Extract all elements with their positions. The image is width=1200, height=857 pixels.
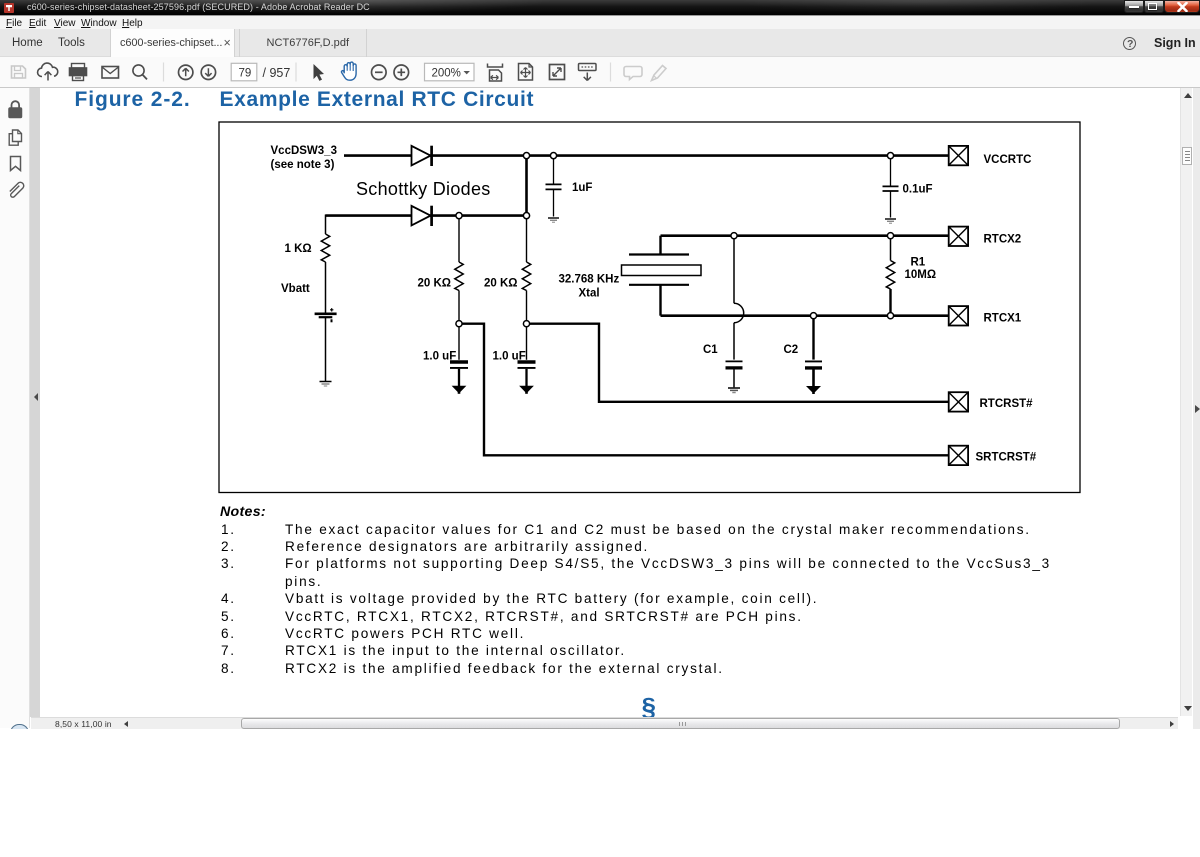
resistor 20KOhm second: [526, 219, 528, 262]
toolbar icons placeholder: [0, 57, 1200, 88]
read mode icon: [579, 64, 597, 81]
share cloud icon: [38, 63, 58, 76]
resistor 20KOhm first: [458, 219, 460, 262]
svg-text:1.0 uF: 1.0 uF: [493, 351, 526, 363]
page thumbnails icon: [9, 130, 21, 145]
select cursor icon: [314, 64, 325, 81]
pin RTCRST#: [949, 392, 968, 411]
svg-text:32.768 KHz: 32.768 KHz: [559, 274, 620, 286]
capacitor 1.0uF first: [458, 327, 460, 360]
white page: [40, 88, 1180, 717]
page number box: [231, 63, 257, 81]
ground triangle (C2): [807, 387, 820, 393]
svg-text:C1: C1: [703, 344, 718, 356]
separator: [295, 63, 297, 82]
wire battery to ground: [325, 318, 327, 381]
junction node W3/C1: [731, 233, 737, 239]
comment bubble icon (disabled): [624, 67, 642, 80]
figure title: [75, 88, 975, 112]
scrollbar thumb: [1182, 147, 1192, 165]
zoom in icon: [394, 65, 409, 80]
svg-text:79: 79: [239, 67, 252, 79]
search icon: [133, 65, 144, 76]
wire W2 second schottky rail: [326, 214, 527, 217]
tab bar: [0, 29, 1200, 57]
schematic SVG goes here: [210, 115, 1090, 500]
scrollbar down arrow: [1184, 706, 1192, 711]
svg-text:Schottky Diodes: Schottky Diodes: [356, 179, 491, 199]
wire W3 RTCX2 rail: [661, 234, 949, 237]
svg-text:/ 957: / 957: [263, 66, 291, 80]
separator: [610, 63, 612, 82]
junction node W1/vertical link: [523, 153, 529, 159]
svg-text:RTCRST#: RTCRST#: [980, 398, 1034, 410]
wire to RTCRST#: [527, 324, 949, 402]
floating page button (clipped at window bottom): [10, 724, 29, 734]
lock icon (secured): [9, 101, 22, 117]
junction node W2/20K first: [456, 213, 462, 219]
wire vertical link W1-W2: [525, 156, 528, 216]
junction node W1/1uF: [550, 153, 556, 159]
ground (1uF): [548, 218, 559, 222]
hscroll right arrow: [1170, 721, 1174, 727]
wire resistor to battery: [325, 262, 327, 313]
ground (0.1uF): [885, 219, 896, 223]
capacitor 0.1uF: [890, 159, 892, 186]
svg-text:Xtal: Xtal: [579, 288, 600, 300]
svg-text:1 KΩ: 1 KΩ: [285, 243, 312, 255]
junction node W4/R1: [887, 313, 893, 319]
save icon (disabled): [12, 66, 26, 78]
svg-text:Vbatt: Vbatt: [281, 283, 310, 295]
resistor R1 10MOhm: [890, 239, 892, 261]
wire drop to 1K resistor: [325, 215, 327, 235]
capacitor 1.0uF second: [526, 327, 528, 360]
notes: [220, 504, 1140, 520]
wire W4 RTCX1 rail: [661, 314, 949, 317]
zoom out icon: [372, 65, 387, 80]
pin RTCX1: [949, 306, 968, 325]
capacitor C1 branch with hop: [733, 239, 735, 303]
right panel collapse arrow: [1195, 405, 1200, 413]
svg-text:10MΩ: 10MΩ: [905, 269, 937, 281]
junction node 20K first/1.0uF: [456, 321, 462, 327]
status bar: [31, 717, 1178, 729]
capacitor C2 branch: [812, 319, 814, 360]
left sidebar: [0, 88, 30, 728]
svg-text:20 KΩ: 20 KΩ: [484, 278, 518, 290]
ground triangle (1.0uF second): [520, 386, 532, 392]
email envelope icon: [102, 67, 119, 79]
menu bar: [0, 15, 1200, 29]
wire W1 VccDSW3_3 to VCCRTC: [344, 154, 949, 157]
svg-text:R1: R1: [911, 257, 926, 269]
scrollbar up arrow: [1184, 93, 1192, 98]
diode D2 schottky: [412, 206, 431, 226]
svg-text:C2: C2: [784, 344, 799, 356]
ground (C1): [728, 388, 740, 393]
crystal Y1 32.768KHz: [659, 236, 661, 255]
junction node W4/C2: [810, 313, 816, 319]
zoom level box: [425, 63, 475, 81]
svg-text:RTCX2: RTCX2: [984, 234, 1022, 246]
svg-text:200%: 200%: [432, 67, 461, 79]
resistor 1KOhm zigzag: [321, 234, 329, 262]
pin VCCRTC: [949, 146, 968, 165]
full screen icon: [550, 65, 565, 80]
ground triangle (1.0uF first): [453, 386, 465, 392]
fit page icon: [519, 64, 533, 81]
junction node W2/20K second: [523, 213, 529, 219]
junction node W1/0.1uF: [887, 153, 893, 159]
junction node W3/R1: [887, 233, 893, 239]
svg-text:1.0 uF: 1.0 uF: [423, 351, 456, 363]
bookmarks icon: [11, 157, 21, 171]
svg-text:1uF: 1uF: [572, 182, 592, 194]
fit width icon: [488, 64, 503, 82]
print icon: [70, 64, 87, 81]
next page icon: [201, 65, 215, 79]
attachments paperclip icon: [10, 182, 24, 197]
svg-text:RTCX1: RTCX1: [984, 313, 1022, 325]
separator: [163, 63, 165, 82]
junction node 20K second/1.0uF: [523, 321, 529, 327]
highlighter pencil icon (disabled): [652, 66, 667, 81]
diode D1 schottky: [412, 146, 431, 166]
wire to SRTCRST#: [459, 324, 949, 456]
window title bar: [0, 0, 1200, 15]
hand tool icon: [341, 62, 356, 80]
previous page icon: [179, 65, 193, 79]
section mark (next page heading, clipped): [642, 692, 656, 723]
ground (battery): [320, 382, 332, 387]
left panel collapse arrow: [34, 393, 38, 401]
svg-text:VCCRTC: VCCRTC: [984, 154, 1032, 166]
hscroll left arrow: [124, 721, 128, 727]
capacitor 1uF: [553, 158, 555, 184]
svg-text:VccDSW3_3: VccDSW3_3: [271, 145, 337, 157]
pin SRTCRST#: [949, 446, 968, 465]
svg-text:0.1uF: 0.1uF: [903, 184, 933, 196]
battery Vbatt plates: [315, 312, 337, 315]
svg-text:20 KΩ: 20 KΩ: [418, 278, 452, 290]
pin RTCX2: [949, 227, 968, 246]
svg-text:(see note 3): (see note 3): [271, 159, 335, 171]
schematic frame: [219, 122, 1080, 493]
svg-text:SRTCRST#: SRTCRST#: [976, 452, 1037, 464]
